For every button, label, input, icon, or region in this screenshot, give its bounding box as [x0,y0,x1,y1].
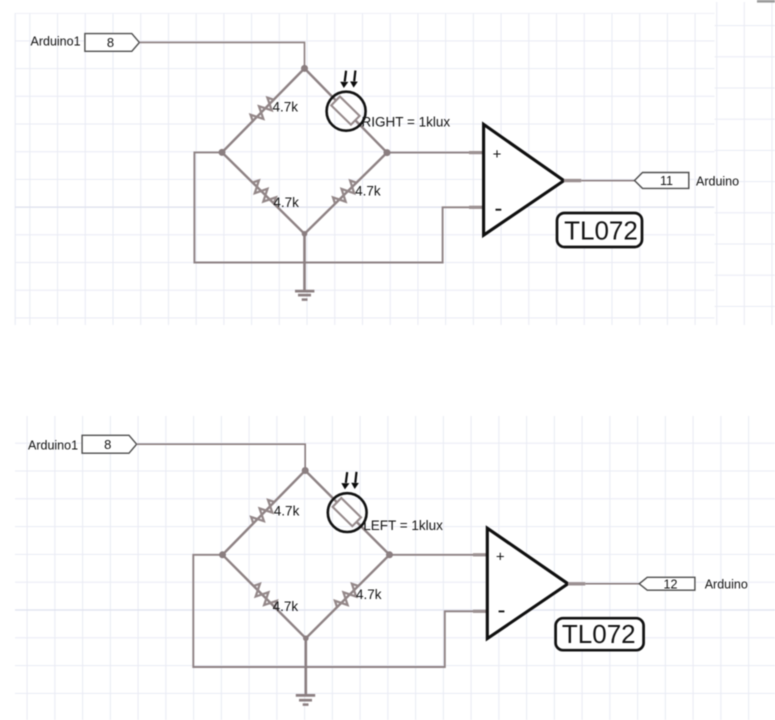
svg-text:+: + [493,146,502,163]
pin box 11 (top) [635,173,689,189]
node left (top) [219,149,226,156]
wire op-amp output to pin 12 (bottom) [585,583,639,585]
resistor R2 4.7k zigzag bottom-left (top) [248,178,278,208]
grid left edge line top [14,13,16,325]
node right (top) [384,149,391,156]
svg-text:RIGHT = 1klux: RIGHT = 1klux [362,114,451,129]
part label TL072 (bottom) [556,618,644,650]
wire pin8 to bridge top (bottom) [137,444,306,470]
node left (bottom) [219,551,226,558]
svg-text:Arduino: Arduino [705,578,748,592]
LDR light arrow 1 (bottom) [341,472,349,489]
grid bottom section [15,416,775,720]
bridge diamond wires (bottom) [223,471,390,639]
op-amp - label (bottom) [499,610,505,612]
resistor R5 4.7k zigzag bottom-left (bottom) [249,582,279,612]
LDR circle (top) [327,92,366,131]
svg-text:TL072: TL072 [564,215,638,245]
node right (bottom) [386,551,393,558]
svg-text:Arduino: Arduino [696,174,739,188]
svg-text:8: 8 [104,437,111,452]
op-amp U2 triangle (bottom) [487,528,568,638]
wire left node loop to op-amp - (bottom) [193,555,487,667]
svg-text:4.7k: 4.7k [273,195,299,210]
wire bottom node to ground (bottom) [304,638,307,694]
resistor R6 4.7k zigzag bottom-right (bottom) [333,582,363,612]
svg-text:8: 8 [107,35,114,50]
pin box 12 (bottom) [639,577,695,591]
ground symbol (bottom) [296,695,315,704]
svg-text:4.7k: 4.7k [274,503,300,518]
node top (bottom) [302,467,309,474]
grid major line bottom [15,609,775,611]
svg-text:11: 11 [660,174,673,188]
bridge diamond wires (top) [222,68,387,233]
wire bottom node to ground (top) [303,234,306,290]
op-amp output stub (bottom) [568,582,585,585]
grid top section [15,13,715,325]
scrollbar fragment top-right [757,0,775,3]
node top (top) [301,65,308,72]
node bottom (bottom) [303,636,309,642]
LDR light arrow 2 (top) [350,71,358,88]
svg-text:LEFT = 1klux: LEFT = 1klux [363,518,443,533]
ground symbol (top) [295,291,314,300]
op-amp - label (top) [496,209,502,211]
wire op-amp output to pin 11 (top) [581,180,634,182]
svg-text:4.7k: 4.7k [273,100,299,115]
svg-text:+: + [496,548,505,565]
svg-text:Arduino1: Arduino1 [28,438,78,452]
LDR light arrow 1 (top) [340,71,348,88]
op-amp pin stub + (bottom) [473,553,488,556]
wire right node to op-amp + (bottom) [390,554,488,556]
wire left node loop to op-amp - (top) [194,152,483,262]
LDR body rect (top) [331,97,359,125]
LDR circle (bottom) [328,493,367,532]
grid major line top [15,206,714,208]
LDR body rect (bottom) [333,498,361,526]
op-amp output stub (top) [564,179,581,182]
LDR light arrow 2 (bottom) [351,472,359,489]
wire pin8 to bridge top (top) [139,42,304,68]
grid top-right sliver [715,2,775,325]
op-amp pin stub - (top) [469,206,484,209]
pin box 8 (bottom) [82,435,137,453]
op-amp U1 triangle (top) [484,124,564,235]
resistor R4 4.7k zigzag top-left (bottom) [249,498,279,528]
svg-text:12: 12 [664,577,678,591]
svg-text:TL072: TL072 [562,619,636,649]
resistor R1 4.7k zigzag top-left (top) [248,95,278,125]
svg-text:4.7k: 4.7k [273,599,299,614]
svg-text:4.7k: 4.7k [355,183,381,198]
op-amp pin stub + (top) [469,151,484,154]
svg-text:4.7k: 4.7k [356,587,382,602]
op-amp pin stub - (bottom) [473,610,488,613]
part label TL072 (top) [557,213,642,247]
svg-text:Arduino1: Arduino1 [31,35,81,49]
resistor R3 4.7k zigzag bottom-right (top) [331,178,361,208]
pin box 8 (top) [85,34,139,52]
wire right node to op-amp + (top) [387,152,484,154]
node bottom (top) [302,231,308,237]
